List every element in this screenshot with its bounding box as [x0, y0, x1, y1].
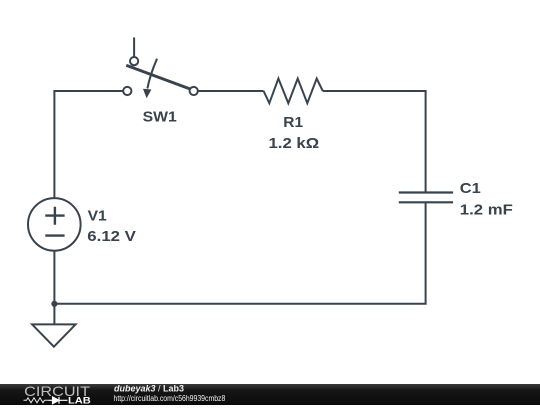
V1 minus sign — [45, 234, 64, 236]
SW1 arrowhead — [143, 89, 151, 99]
capacitor C1 top plate — [399, 191, 453, 193]
svg-text:LAB: LAB — [68, 395, 91, 405]
footer black bar — [0, 384, 540, 405]
svg-text:SW1: SW1 — [143, 108, 177, 125]
svg-text:1.2 kΩ: 1.2 kΩ — [269, 135, 320, 152]
SW1 lever bar — [126, 65, 190, 89]
voltage source V1 circle — [28, 198, 81, 251]
SW1 right terminal circle — [190, 87, 198, 95]
logo diode symbol — [49, 397, 68, 404]
svg-text:1.2 mF: 1.2 mF — [460, 202, 513, 219]
V1 plus sign — [45, 207, 64, 225]
svg-text:6.12 V: 6.12 V — [87, 228, 136, 245]
wire SW1 right terminal to R1 — [198, 90, 264, 92]
capacitor C1 bottom plate — [399, 201, 453, 203]
SW1 top stub wire — [133, 37, 135, 57]
SW1 actuation arrow curve — [147, 59, 157, 89]
svg-text:C1: C1 — [460, 180, 481, 197]
wire V1 bottom to junction to ground stub — [53, 251, 55, 325]
wire C1 bottom down and bottom horizontal to junction — [54, 202, 425, 303]
SW1 left terminal circle — [123, 87, 131, 95]
wire top-left horizontal (corner to SW1 left terminal) — [54, 91, 123, 198]
svg-text:R1: R1 — [283, 114, 303, 131]
svg-text:V1: V1 — [88, 207, 107, 224]
logo resistor zigzag — [24, 398, 49, 403]
resistor R1 zigzag — [264, 79, 323, 104]
switch SW1 — [123, 37, 198, 98]
ground symbol — [32, 324, 76, 346]
junction node dot — [51, 301, 57, 307]
SW1 top contact circle — [130, 57, 138, 65]
wire R1 to top-right corner down to C1 — [323, 91, 426, 192]
svg-text:http://circuitlab.com/c56h9939: http://circuitlab.com/c56h9939cmbz8 — [114, 393, 226, 403]
